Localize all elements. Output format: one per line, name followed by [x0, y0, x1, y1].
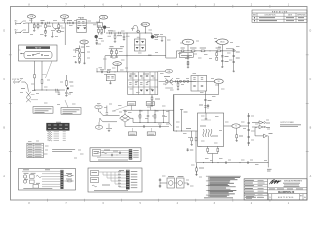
svg-text:V4B: V4B — [167, 71, 170, 73]
svg-text:P1: P1 — [98, 107, 100, 109]
svg-text:D: D — [310, 30, 312, 33]
svg-text:REV: REV — [300, 196, 303, 198]
svg-text:P2: P2 — [98, 127, 100, 129]
svg-text:IN 2: IN 2 — [15, 29, 18, 31]
svg-text:D: D — [3, 30, 5, 33]
svg-text:6BQ5: 6BQ5 — [220, 41, 224, 43]
svg-text:0 0 4 7 1 9 7 0 0 0: 0 0 4 7 1 9 7 0 0 0 — [278, 197, 293, 199]
svg-text:R E V I S I O N S: R E V I S I O N S — [272, 12, 288, 14]
svg-text:FOOT SW: FOOT SW — [12, 79, 20, 81]
svg-text:C: C — [3, 78, 5, 81]
svg-text:T2: T2 — [235, 126, 237, 128]
svg-text:DESCRIPTION: DESCRIPTION — [265, 15, 277, 17]
svg-text:IN 1: IN 1 — [15, 20, 18, 22]
svg-text:6BQ5: 6BQ5 — [186, 42, 190, 44]
svg-text:OUTPUT POWER: OUTPUT POWER — [280, 122, 295, 124]
svg-text:C: C — [310, 78, 312, 81]
svg-text:FAT SW: FAT SW — [35, 46, 42, 49]
svg-text:V5: V5 — [218, 81, 220, 83]
